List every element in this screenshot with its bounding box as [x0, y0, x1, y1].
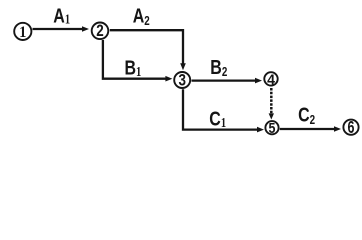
svg-text:A2: A2 [133, 4, 150, 29]
svg-text:B1: B1 [125, 56, 142, 80]
node 3 [174, 71, 190, 90]
svg-text:4: 4 [267, 72, 276, 89]
svg-text:3: 3 [179, 71, 186, 90]
svg-text:A1: A1 [53, 4, 70, 28]
svg-text:6: 6 [348, 118, 355, 138]
node 5 [265, 119, 278, 136]
wire C2 arrow from node 5 to node 6 [280, 126, 341, 132]
node 2 [92, 22, 109, 41]
wire C1 from node 3 bottom, corner, into node 5 left [183, 89, 264, 132]
svg-text:1: 1 [19, 23, 26, 41]
node 6 [343, 118, 358, 138]
wire A2 arrow from node 2 right then down into node 3 [110, 30, 186, 70]
node 1 [14, 23, 31, 41]
svg-text:2: 2 [96, 22, 103, 41]
node 4 [264, 72, 277, 89]
svg-text:5: 5 [269, 119, 276, 136]
svg-text:C1: C1 [209, 106, 226, 130]
svg-text:C2: C2 [298, 103, 315, 128]
wire B2 arrow from node 3 to node 4 [192, 78, 263, 84]
wire B1 from node 2 bottom, corner, into node 3 left [103, 40, 172, 82]
svg-text:B2: B2 [210, 55, 227, 80]
wire A1 arrow from node 1 to node 2 [33, 26, 90, 32]
dashed dummy arrow from node 4 down to node 5 [269, 88, 274, 120]
